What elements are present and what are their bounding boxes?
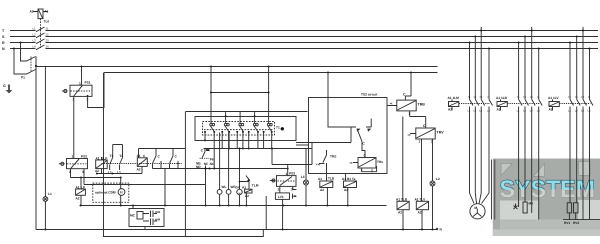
svg-text:NF: NF: [204, 162, 208, 166]
svg-text:PS2: PS2: [81, 154, 87, 158]
svg-text:1LP: 1LP: [102, 156, 109, 160]
svg-text:optional CDM: optional CDM: [95, 191, 116, 195]
lamp L1: [43, 197, 48, 202]
svg-text:TRS: TRS: [330, 155, 336, 159]
long vertical from central box top-left: [184, 112, 186, 237]
cross wire between taps: [210, 92, 270, 94]
svg-text:TRs: TRs: [377, 160, 383, 164]
MC filter box: [129, 206, 164, 230]
svg-text:PS1: PS1: [85, 81, 91, 85]
TRV pin1 wire down to coil TLB2: [421, 139, 423, 201]
svg-text:A2: A2: [137, 168, 141, 172]
contact TC: [296, 119, 371, 158]
label A1: [44, 10, 48, 14]
bottom rail N: [36, 229, 437, 231]
wire A (control line from P1): [36, 66, 438, 68]
band1 two-pole contact: [110, 145, 123, 171]
svg-text:RV1: RV1: [564, 221, 570, 225]
relay contact group 2: [224, 112, 229, 132]
relay TRV: [410, 128, 435, 139]
svg-text:A1: A1: [96, 156, 100, 160]
coil LPM: [76, 178, 86, 206]
svg-text:A2: A2: [418, 211, 422, 215]
svg-text:A1: A1: [44, 10, 48, 14]
PS1 pin2 wire down to PS2: [73, 96, 75, 158]
svg-text:A2: A2: [245, 194, 249, 198]
svg-text:N: N: [537, 96, 539, 99]
svg-text:MC: MC: [130, 214, 136, 218]
coil TLB: [320, 173, 333, 206]
svg-text:P1: P1: [21, 76, 25, 80]
relay contact group 1: [210, 67, 215, 132]
svg-text:A1: A1: [137, 154, 141, 158]
svg-text:TRB: TRB: [418, 103, 426, 107]
wire y168.5: [153, 168, 289, 207]
svg-text:21: 21: [46, 27, 50, 31]
band1 dashed link: [102, 163, 182, 165]
label PS2: [69, 154, 87, 174]
svg-text:WL: WL: [222, 185, 227, 189]
svg-text:A1: A1: [242, 185, 246, 189]
svg-text:P6: P6: [210, 157, 214, 161]
svg-text:A1 1LM: A1 1LM: [448, 96, 460, 100]
wire y173.5: [96, 173, 142, 175]
label N at rail end: [436, 228, 438, 230]
svg-text:C: C: [423, 124, 426, 128]
bus line N with main switch contact: [10, 45, 598, 50]
wire TRB to TRV: [410, 117, 426, 129]
bus line S with main switch contact: [10, 33, 598, 38]
contactor 1LM coil: [449, 99, 459, 110]
lower coil TLV2: [416, 201, 428, 230]
svg-text:GN: GN: [235, 186, 240, 190]
contactor 1LV coil: [549, 99, 559, 110]
svg-text:RV2: RV2: [573, 221, 579, 225]
label G: [3, 84, 6, 88]
PS1 pin1 feed from wire A: [81, 67, 83, 86]
svg-text:G: G: [3, 84, 6, 88]
svg-text:ND: ND: [196, 165, 201, 169]
selector switch P6: [202, 149, 206, 206]
band1 coil LP: [96, 157, 108, 174]
label P1: [21, 76, 25, 80]
svg-text:A2: A2: [320, 188, 324, 192]
terminal circle GN: [237, 148, 249, 206]
svg-text:mA: mA: [155, 217, 161, 221]
label A2: [30, 10, 34, 14]
label TS2 circuit: [361, 93, 378, 97]
R tap to switch P1: [20, 42, 36, 62]
svg-text:L2: L2: [436, 177, 440, 181]
svg-text:22: 22: [46, 33, 50, 37]
pressure switch PS3: [270, 165, 297, 193]
svg-text:TL0: TL0: [44, 20, 50, 24]
relay contact group 4: [253, 112, 258, 132]
bus line R with main switch contact: [10, 39, 598, 44]
watermark component M9: [514, 202, 528, 213]
svg-text:1: 1: [286, 172, 288, 176]
text optional CDM: [95, 191, 116, 195]
svg-text:3: 3: [291, 188, 293, 192]
wire B (second control line): [104, 72, 438, 74]
central relay box outer: [186, 111, 308, 113]
bus line T with main switch contact: [10, 27, 598, 32]
svg-text:TLM: TLM: [252, 184, 259, 188]
switch P1 output node: [35, 57, 37, 71]
svg-text:PS3: PS3: [289, 172, 295, 176]
svg-text:L3: L3: [301, 175, 305, 179]
wire P1 down to bottom rail: [35, 67, 37, 230]
svg-text:L2: L2: [33, 33, 37, 37]
svg-text:A1 B1 Ta: A1 B1 Ta: [342, 177, 356, 181]
relay TRs: [353, 158, 377, 172]
svg-text:L3: L3: [33, 39, 37, 43]
pressure switch PS1: [62, 85, 92, 96]
bus label T: [2, 29, 5, 33]
svg-text:M9: M9: [529, 202, 534, 206]
dashed mechanical link of main switch: [40, 19, 42, 48]
watermark wire lower right: [563, 219, 600, 221]
svg-text:2: 2: [371, 169, 373, 173]
svg-text:2: 2: [278, 188, 280, 192]
terminal circles WL WF: [217, 133, 231, 206]
svg-text:1: 1: [361, 169, 363, 173]
contactor 1LM contacts: [470, 27, 493, 193]
relay TRB: [387, 73, 416, 117]
switch P1 dashed link: [30, 57, 32, 72]
svg-text:1: 1: [79, 81, 81, 85]
svg-text:A1 TLB: A1 TLB: [396, 197, 408, 201]
TS2 feed from wire B: [328, 73, 356, 128]
PS2 pin3 wire: [83, 169, 85, 185]
pressure switch PS2: [59, 159, 88, 169]
PS2 pin2 stub: [70, 169, 72, 178]
svg-text:A2: A2: [76, 196, 80, 200]
label MC / mA: [130, 210, 161, 222]
relay coil TL0: [33, 9, 48, 19]
svg-text:A2: A2: [448, 107, 452, 111]
N tap to switch P1: [13, 48, 36, 75]
svg-text:1: 1: [419, 140, 421, 144]
svg-text:N: N: [588, 96, 590, 99]
svg-text:A2: A2: [398, 211, 402, 215]
lamp L2: [430, 181, 435, 186]
svg-text:NC: NC: [210, 162, 215, 166]
TS2 circuit box: [309, 98, 388, 174]
wire bundle into TS2: [296, 144, 309, 146]
PS1 pin3 wire to wire B: [87, 73, 104, 108]
svg-text:LV1: LV1: [278, 195, 284, 199]
main switch pole labels: [33, 27, 50, 49]
svg-text:L1: L1: [33, 27, 37, 31]
coil TLM with arrow: [245, 176, 252, 206]
central relay box dashed: [203, 122, 275, 136]
plug symbol right of LV1: [293, 194, 297, 199]
earth arrow G: [6, 85, 13, 94]
svg-text:mA: mA: [155, 210, 161, 214]
svg-text:T1: T1: [110, 154, 114, 158]
svg-text:A1 1LB: A1 1LB: [496, 96, 508, 100]
lower coil TLB2: [397, 117, 409, 231]
watermark logo triangles: [501, 162, 590, 177]
wire y148 right segment: [204, 148, 313, 150]
watermark RV1 RV2: [567, 203, 578, 220]
label T1 and dot: [276, 125, 284, 130]
svg-text:A2: A2: [497, 107, 501, 111]
label L1: [48, 192, 52, 196]
band1 contact C1: [153, 149, 162, 169]
svg-text:N: N: [488, 96, 490, 99]
band1 coil 2: [137, 149, 147, 174]
label A1 LPM: [76, 185, 86, 200]
svg-text:T2: T2: [119, 154, 123, 158]
bus label N: [2, 47, 5, 51]
band1 contact C2: [170, 149, 179, 169]
svg-text:A2: A2: [344, 188, 348, 192]
wire y184.8: [84, 184, 205, 186]
svg-text:L1: L1: [48, 192, 52, 196]
terminal drop wires: [205, 133, 272, 169]
vertical x266: [265, 196, 267, 230]
relay terminals row: [204, 131, 272, 133]
junction dots below box: [204, 139, 250, 149]
svg-text:T1: T1: [276, 125, 280, 129]
svg-text:A2: A2: [95, 169, 99, 173]
optional CDM dashed box: [93, 183, 129, 202]
svg-text:24: 24: [46, 45, 50, 49]
bus label S: [2, 35, 5, 39]
watermark SYSTEM text: [500, 176, 596, 203]
contactor 1LB contacts: [519, 27, 543, 220]
central relay box middle: [195, 117, 296, 141]
contactor 1LV contacts: [570, 27, 593, 220]
contactor 1LB coil: [497, 99, 507, 110]
svg-text:TRV: TRV: [437, 131, 445, 135]
TRV pin2 wire to lamp L2: [432, 139, 434, 231]
svg-text:A1: A1: [76, 185, 80, 189]
svg-text:M: M: [120, 190, 123, 194]
lamp L3: [304, 149, 309, 206]
svg-text:23: 23: [46, 39, 50, 43]
wire y164.7 jog: [271, 143, 312, 165]
wire y148 left segment: [139, 148, 186, 150]
svg-text:A1: A1: [318, 177, 322, 181]
wire y177: [71, 177, 122, 179]
svg-text:A1 TLV: A1 TLV: [415, 197, 427, 201]
svg-text:A1 1LV: A1 1LV: [548, 96, 559, 100]
svg-text:TS2 circuit: TS2 circuit: [361, 93, 378, 97]
coil Ta: [344, 173, 357, 206]
lamp L1 branch wire: [44, 67, 46, 231]
big enclosure box left/bottom: [104, 73, 264, 237]
svg-text:L4: L4: [33, 45, 37, 49]
label TL0: [44, 20, 50, 24]
label PS1: [73, 81, 91, 102]
relay contact group 3: [239, 112, 244, 132]
svg-text:2: 2: [409, 112, 411, 116]
box LV1: [275, 193, 289, 231]
svg-text:A2: A2: [30, 10, 34, 14]
svg-text:R: R: [2, 41, 5, 45]
svg-text:N: N: [2, 47, 5, 51]
watermark left wires: [492, 160, 495, 220]
rail 1 (control common): [80, 205, 387, 207]
svg-text:1: 1: [72, 155, 74, 159]
contact TRS: [319, 150, 327, 173]
bus label R: [2, 41, 5, 45]
svg-text:M: M: [474, 206, 477, 210]
svg-text:TLB: TLB: [328, 177, 335, 181]
relay contact group 5: [267, 67, 272, 132]
motor M1: [470, 193, 490, 219]
svg-text:A2: A2: [549, 107, 553, 111]
svg-text:C: C: [403, 92, 406, 96]
motor circle M: [118, 178, 125, 206]
